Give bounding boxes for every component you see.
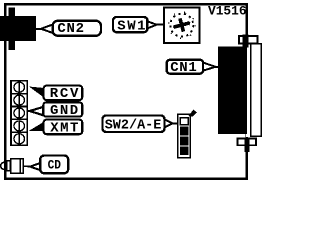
svg-text:CD: CD xyxy=(48,157,62,172)
svg-text:SW2/A-E: SW2/A-E xyxy=(105,118,162,134)
svg-text:V1516: V1516 xyxy=(208,4,247,19)
svg-text:XMT: XMT xyxy=(50,120,78,136)
svg-text:CN2: CN2 xyxy=(57,21,84,37)
svg-text:CN1: CN1 xyxy=(170,60,197,76)
svg-text:SW1: SW1 xyxy=(117,18,145,34)
svg-text:GND: GND xyxy=(50,103,78,119)
svg-text:RCV: RCV xyxy=(50,86,79,102)
